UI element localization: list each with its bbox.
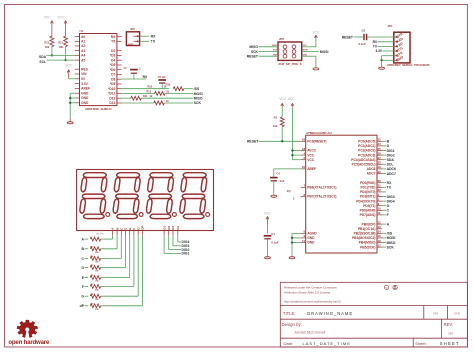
svg-text:*D5: *D5 <box>110 63 116 67</box>
svg-text:VIN: VIN <box>81 72 87 76</box>
svg-text:PD2(INT0): PD2(INT0) <box>360 190 376 194</box>
svg-text:REV:: REV: <box>444 322 454 327</box>
svg-text:3.3V: 3.3V <box>81 82 89 86</box>
svg-text:10: 10 <box>378 207 382 211</box>
svg-text:ADC7: ADC7 <box>367 172 376 176</box>
svg-text:DIG4: DIG4 <box>387 199 395 203</box>
svg-text:D2: D2 <box>111 49 115 53</box>
svg-text:SCK: SCK <box>273 50 278 52</box>
svg-text:PB5(SCK): PB5(SCK) <box>360 245 375 249</box>
svg-text:VCC: VCC <box>65 64 73 68</box>
svg-text:31: 31 <box>378 184 382 188</box>
svg-text:F: F <box>82 285 84 289</box>
svg-text:3.3V: 3.3V <box>375 49 382 53</box>
svg-text:dP: dP <box>80 304 85 308</box>
svg-text:SDA: SDA <box>39 55 47 59</box>
svg-text:29: 29 <box>302 138 306 142</box>
svg-text:VCC: VCC <box>313 31 320 35</box>
svg-text:10k: 10k <box>45 45 50 49</box>
svg-text:Released under the Creative Co: Released under the Creative Commons <box>284 286 337 290</box>
svg-text:PC5(ADC5SCL): PC5(ADC5SCL) <box>352 163 376 167</box>
svg-text:*D6: *D6 <box>110 68 116 72</box>
svg-text:PC6(RESET): PC6(RESET) <box>307 140 326 144</box>
svg-text:DIG1: DIG1 <box>387 149 395 153</box>
svg-text:PB1(OC1A): PB1(OC1A) <box>358 227 376 231</box>
svg-text:RESET: RESET <box>342 35 354 39</box>
svg-text:R2 10k: R2 10k <box>97 234 105 236</box>
svg-text:PB7(XTAL2TOSC2): PB7(XTAL2TOSC2) <box>307 195 336 199</box>
svg-text:MOSI: MOSI <box>387 236 396 240</box>
svg-text:GND: GND <box>307 236 315 240</box>
svg-text:RESET: RESET <box>247 55 259 59</box>
svg-text:MOSI: MOSI <box>194 92 203 96</box>
svg-text:PB2(SSOC1B): PB2(SSOC1B) <box>354 232 376 236</box>
svg-text:Design by:: Design by: <box>282 322 302 327</box>
svg-text:G: G <box>387 204 390 208</box>
svg-text:PC1(ADC1): PC1(ADC1) <box>358 144 375 148</box>
svg-text:Date:: Date: <box>284 341 294 346</box>
svg-text:PC0(ADC0): PC0(ADC0) <box>358 140 375 144</box>
svg-text:GND: GND <box>307 241 315 245</box>
svg-text:DRAWING_NAME: DRAWING_NAME <box>307 311 353 316</box>
svg-text:PB0(ICP): PB0(ICP) <box>362 222 376 226</box>
svg-text:AREF: AREF <box>307 167 316 171</box>
svg-text:32: 32 <box>378 188 382 192</box>
svg-text:A4: A4 <box>81 54 85 58</box>
svg-text:A3: A3 <box>81 49 85 53</box>
svg-text:SDA: SDA <box>387 158 395 162</box>
svg-text:*D3: *D3 <box>110 54 116 58</box>
svg-text:18: 18 <box>302 147 306 151</box>
svg-text:http://creativecommons.org/lic: http://creativecommons.org/licenses/by-s… <box>284 299 341 303</box>
svg-text:U1: U1 <box>80 29 84 33</box>
svg-text:A1: A1 <box>81 40 85 44</box>
svg-text:20: 20 <box>302 165 306 169</box>
svg-text:SCL: SCL <box>387 163 394 167</box>
svg-text:D4: D4 <box>176 226 180 230</box>
svg-text:SCL: SCL <box>39 60 46 64</box>
svg-text:PC3(ADC3): PC3(ADC3) <box>358 153 375 157</box>
svg-text:A0: A0 <box>81 35 85 39</box>
svg-text:SFE: SFE <box>454 312 460 316</box>
svg-text:TX: TX <box>151 40 156 44</box>
svg-text:LAST_DATE_TIME: LAST_DATE_TIME <box>303 341 351 346</box>
svg-text:open hardware: open hardware <box>8 339 50 346</box>
svg-text:R11: R11 <box>58 40 63 44</box>
svg-text:D8: D8 <box>111 77 115 81</box>
svg-text:12: 12 <box>378 220 382 224</box>
svg-text:PD3(INT1): PD3(INT1) <box>360 195 376 199</box>
svg-text:0.1uF: 0.1uF <box>359 42 367 46</box>
svg-text:JP2: JP2 <box>279 37 285 41</box>
svg-text:PC4(ADC4SDA): PC4(ADC4SDA) <box>351 158 375 162</box>
svg-text:Jordan McConnell: Jordan McConnell <box>294 329 325 334</box>
svg-text:DIG1: DIG1 <box>182 252 190 256</box>
svg-text:24: 24 <box>378 142 382 146</box>
svg-text:D4: D4 <box>111 58 115 62</box>
svg-text:PD5(T1): PD5(T1) <box>363 204 375 208</box>
svg-text:DP: DP <box>141 225 145 229</box>
svg-text:PB6(XTAL1TOSC1): PB6(XTAL1TOSC1) <box>307 186 336 190</box>
svg-text:SCK: SCK <box>251 50 259 54</box>
svg-text:MOSI: MOSI <box>320 50 329 54</box>
svg-text:JP2: JP2 <box>130 27 135 31</box>
svg-text:C3 1uF: C3 1uF <box>158 76 167 79</box>
svg-text:0.1uF: 0.1uF <box>271 240 279 244</box>
svg-text:D13: D13 <box>109 101 115 105</box>
svg-text:C1: C1 <box>271 232 275 236</box>
svg-text:VCC: VCC <box>264 211 271 215</box>
svg-text:AREF: AREF <box>81 87 90 91</box>
svg-text:C9: C9 <box>362 28 366 32</box>
svg-text:*D10: *D10 <box>108 87 115 91</box>
svg-text:28: 28 <box>378 161 382 165</box>
svg-text:/SS: /SS <box>387 232 393 236</box>
svg-text:TX: TX <box>387 186 392 190</box>
svg-text:27: 27 <box>378 156 382 160</box>
svg-text:PD0(RXD): PD0(RXD) <box>360 181 375 185</box>
svg-text:SCK: SCK <box>387 245 395 249</box>
svg-text:ADC6: ADC6 <box>367 167 376 171</box>
svg-text:10k: 10k <box>59 45 64 49</box>
svg-text:26: 26 <box>378 151 382 155</box>
svg-text:R1: R1 <box>274 116 278 120</box>
svg-text:R16: R16 <box>148 85 153 88</box>
svg-text:SHEET: SHEET <box>440 341 460 346</box>
svg-text:Sheet:: Sheet: <box>415 341 427 346</box>
svg-text:GND: GND <box>81 96 89 100</box>
svg-text:R12: R12 <box>44 40 49 44</box>
svg-text:13: 13 <box>378 225 382 229</box>
svg-text:AVCC: AVCC <box>307 149 317 153</box>
svg-text:PB4(MISO): PB4(MISO) <box>359 241 376 245</box>
svg-text:PD6(AIN0): PD6(AIN0) <box>360 209 376 213</box>
svg-text:MISO: MISO <box>249 45 258 49</box>
svg-text:A2: A2 <box>81 44 85 48</box>
svg-text:M02X: M02X <box>128 44 134 46</box>
svg-text:D7: D7 <box>111 73 115 77</box>
svg-text:JP1: JP1 <box>388 24 394 28</box>
svg-text:RX: RX <box>151 34 157 38</box>
svg-text:17: 17 <box>378 243 382 247</box>
svg-text:DIG2: DIG2 <box>387 153 395 157</box>
svg-text:A5: A5 <box>81 58 85 62</box>
svg-text:10k: 10k <box>273 124 278 128</box>
svg-text:11: 11 <box>378 211 381 215</box>
svg-text:C4: C4 <box>276 172 280 176</box>
svg-text:23: 23 <box>378 138 382 142</box>
svg-text:v10: v10 <box>448 331 453 335</box>
svg-text:21: 21 <box>302 239 306 243</box>
svg-text:VCC: VCC <box>279 97 287 101</box>
svg-text:22: 22 <box>378 170 382 174</box>
svg-text:ADC6: ADC6 <box>387 167 396 171</box>
svg-text:/SS: /SS <box>194 87 200 91</box>
svg-text:*D11: *D11 <box>108 92 115 96</box>
svg-text:RX: RX <box>143 75 148 79</box>
svg-text:G: G <box>81 295 84 299</box>
svg-text:VCC: VCC <box>44 16 52 20</box>
svg-text:ATMEGA328P-AU: ATMEGA328P-AU <box>306 131 333 135</box>
svg-text:MISO: MISO <box>387 241 396 245</box>
svg-text:19: 19 <box>378 165 382 169</box>
svg-text:PC2(ADC2): PC2(ADC2) <box>358 149 375 153</box>
svg-text:PD7(AIN1): PD7(AIN1) <box>360 213 376 217</box>
svg-text:15: 15 <box>378 234 382 238</box>
svg-text:SFE: SFE <box>433 312 439 316</box>
svg-text:ADC7: ADC7 <box>387 172 396 176</box>
svg-text:PB3(MOSIOC2): PB3(MOSIOC2) <box>352 236 375 240</box>
svg-text:D12: D12 <box>109 96 115 100</box>
svg-text:RESET: RESET <box>247 140 259 144</box>
svg-text:PD1(TXD): PD1(TXD) <box>361 186 376 190</box>
svg-text:ARDUINO_SHIELD: ARDUINO_SHIELD <box>85 107 113 111</box>
svg-text:16: 16 <box>378 239 382 243</box>
svg-text:SCK: SCK <box>194 101 202 105</box>
svg-text:RES: RES <box>81 67 89 71</box>
svg-text:*D9: *D9 <box>110 82 116 86</box>
svg-text:RX: RX <box>387 181 392 185</box>
svg-text:Attribution Share-Alike 3.0 Li: Attribution Share-Alike 3.0 License <box>284 290 330 294</box>
svg-text:VCC: VCC <box>307 158 315 162</box>
svg-text:PD4(XCKT0): PD4(XCKT0) <box>356 199 375 203</box>
svg-text:ARDUINO_SERIAL_PROGRAM: ARDUINO_SERIAL_PROGRAM <box>387 63 430 67</box>
svg-text:14: 14 <box>378 230 382 234</box>
svg-text:MISO: MISO <box>194 97 203 101</box>
svg-text:AVR_SP_PRG_6: AVR_SP_PRG_6 <box>278 62 302 66</box>
svg-text:1uF: 1uF <box>280 179 285 183</box>
svg-text:30: 30 <box>378 179 382 183</box>
svg-text:MISO: MISO <box>272 45 278 47</box>
svg-text:25: 25 <box>378 147 382 151</box>
svg-text:R11: R11 <box>143 95 148 98</box>
svg-text:DIG3: DIG3 <box>387 195 395 199</box>
svg-text:AGND: AGND <box>307 232 317 236</box>
svg-text:D1: D1 <box>162 226 166 230</box>
svg-text:GND: GND <box>81 101 89 105</box>
svg-text:D3: D3 <box>171 226 175 230</box>
svg-text:GND: GND <box>81 91 89 95</box>
svg-text:TITLE:: TITLE: <box>283 311 296 316</box>
svg-text:VCC: VCC <box>307 153 315 157</box>
svg-text:VCC: VCC <box>288 97 296 101</box>
svg-text:R13: R13 <box>147 91 152 94</box>
svg-text:F: F <box>387 213 389 217</box>
svg-text:VCC: VCC <box>57 16 65 20</box>
